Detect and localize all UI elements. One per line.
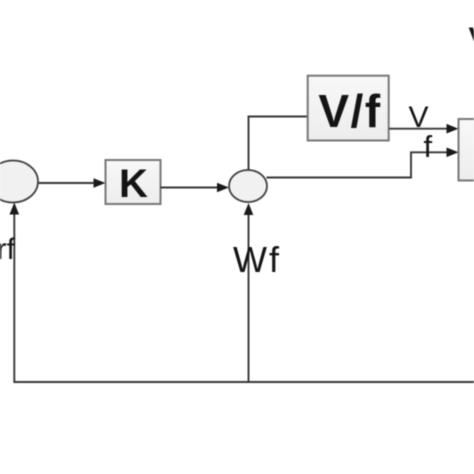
svg-text:K: K <box>119 162 148 206</box>
wire S1 to K <box>38 182 95 184</box>
summing junction S1 <box>0 161 38 203</box>
wire S2 top to V/f block <box>249 117 308 171</box>
wire f: S2 right to right block <box>267 152 448 177</box>
svg-text:f: f <box>424 129 433 164</box>
block right (cut off) <box>459 119 474 181</box>
svg-text:Wrf: Wrf <box>0 233 16 266</box>
svg-text:Wf: Wf <box>233 239 281 280</box>
summing junction S2 <box>229 170 267 202</box>
wire K to S2 <box>161 187 219 189</box>
svg-text:V: V <box>469 22 474 53</box>
feedback branch wire Wf <box>248 213 250 382</box>
block K <box>106 160 161 204</box>
wire V: V/f to right block <box>389 128 448 130</box>
feedback wire bottom <box>14 212 474 382</box>
block V/f <box>308 76 389 141</box>
svg-text:V/f: V/f <box>318 85 381 137</box>
